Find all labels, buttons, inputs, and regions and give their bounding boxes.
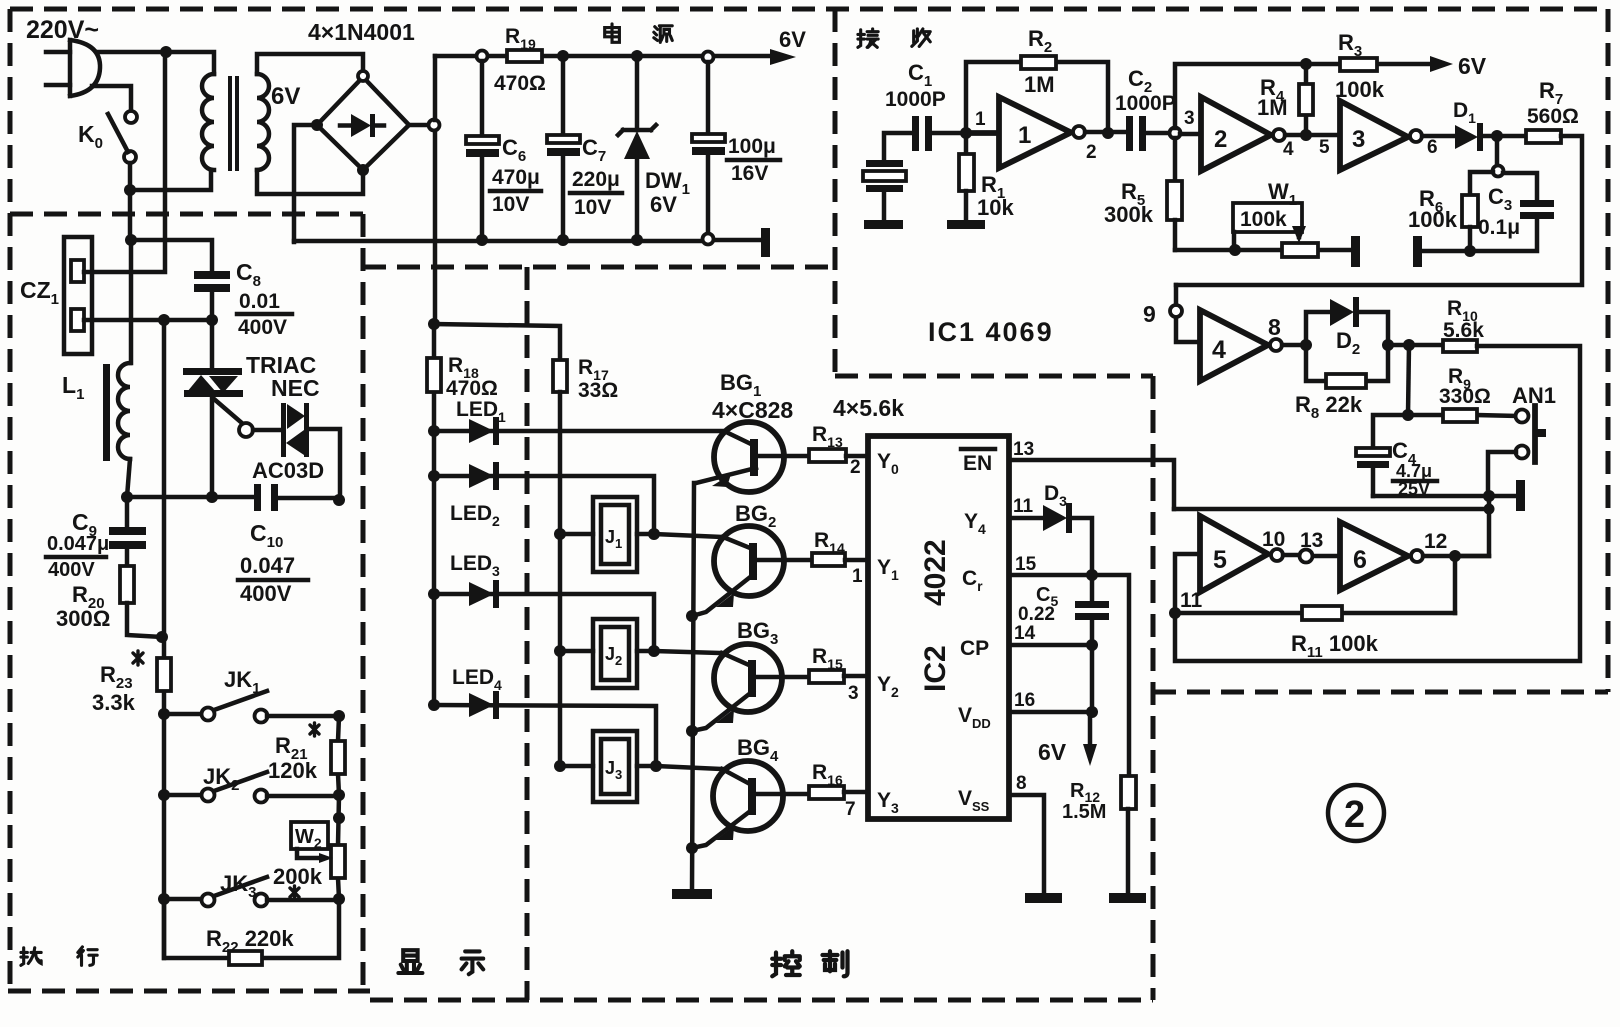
node W1 left xyxy=(1229,244,1241,256)
node circle on DC rail xyxy=(429,120,440,131)
svg-text:4: 4 xyxy=(1283,139,1294,160)
LED4 xyxy=(469,691,499,719)
left rail vertical xyxy=(162,320,167,958)
resistor R5 xyxy=(1167,138,1182,250)
inverter U1-2 xyxy=(1201,97,1285,171)
zhixing box top dashed xyxy=(10,212,363,217)
ground emitter rail xyxy=(672,889,712,899)
svg-text:16: 16 xyxy=(1014,690,1035,711)
svg-text:9: 9 xyxy=(1143,301,1156,327)
switch JK2 xyxy=(164,772,339,803)
node J1 left xyxy=(554,528,566,540)
svg-text:4: 4 xyxy=(1212,336,1226,364)
junction circle R6C3 xyxy=(1493,166,1504,177)
node K0 rail / L1 top xyxy=(125,234,137,246)
svg-text:2: 2 xyxy=(1344,794,1365,836)
svg-text:200k: 200k xyxy=(273,864,323,889)
label jie (receive) char1 xyxy=(858,29,878,47)
wire R7 to IC1b rail xyxy=(1176,136,1582,285)
resistor R16 xyxy=(809,786,844,799)
wire AN1 bottom to node xyxy=(1488,452,1516,496)
svg-text:11: 11 xyxy=(1180,589,1203,612)
svg-text:6: 6 xyxy=(1353,546,1367,574)
pin 11 wire Y4 xyxy=(1009,516,1043,521)
pushbutton AN1 xyxy=(1516,406,1547,462)
svg-text:2: 2 xyxy=(1214,126,1227,153)
node BG4 emitter xyxy=(686,842,698,854)
wire to R10 xyxy=(1388,343,1443,348)
svg-text:0.01: 0.01 xyxy=(239,290,280,313)
label zhi (control) char2 xyxy=(823,951,848,976)
resistor R1 xyxy=(947,133,985,229)
diode D2 branch xyxy=(1306,297,1388,345)
svg-text:400V: 400V xyxy=(240,581,292,606)
node JK1 right xyxy=(333,710,345,722)
node W2 top xyxy=(333,812,345,824)
svg-text:15: 15 xyxy=(1015,554,1037,575)
svg-text:100μ: 100μ xyxy=(728,135,776,158)
AC plug 220V xyxy=(46,40,100,96)
svg-text:11: 11 xyxy=(1013,496,1034,517)
wire R15 to IC2 xyxy=(844,674,868,679)
ground bar R6C3 xyxy=(1413,236,1422,267)
relay supply rail R17 down xyxy=(558,392,563,766)
bottom dashed border left (zhixing box) xyxy=(8,989,370,994)
LED anode rail xyxy=(432,324,437,705)
svg-text:6V: 6V xyxy=(650,192,677,217)
capacitor C1 xyxy=(912,116,966,151)
resistor R8 branch xyxy=(1306,345,1388,388)
ground rail of power section xyxy=(294,240,760,241)
node DW1 top xyxy=(631,50,643,62)
base wire BG1 xyxy=(758,454,809,459)
svg-text:1000P: 1000P xyxy=(1115,92,1176,115)
svg-text:6V: 6V xyxy=(1038,739,1067,765)
ground bar C4 xyxy=(1516,480,1525,511)
wire rail down to inv4 input xyxy=(1176,285,1200,342)
wire R16 to IC2 xyxy=(844,790,868,795)
svg-text:2: 2 xyxy=(1086,142,1097,163)
inverter U1-6 xyxy=(1340,522,1423,590)
wire R11 row xyxy=(1175,611,1455,616)
resistor R23 xyxy=(157,658,171,691)
node J2 left xyxy=(554,645,566,657)
node JK1 left xyxy=(158,708,170,720)
resistor R22 xyxy=(229,951,262,965)
svg-text:CP: CP xyxy=(960,637,989,660)
label dian (power) char1 xyxy=(605,24,620,42)
wire J2 right to BG3 collector xyxy=(637,651,722,653)
node C10 right xyxy=(333,494,345,506)
triac MT wire from C8 node xyxy=(210,320,215,369)
node JK3 right xyxy=(333,893,345,905)
wire bridge right vertex to DC rail xyxy=(409,123,428,128)
label yuan (power) char2 xyxy=(654,26,672,43)
pin 14 wire CP xyxy=(1009,643,1092,648)
svg-text:120k: 120k xyxy=(268,758,318,783)
resistor R19 xyxy=(507,50,542,62)
wire plug top to transformer xyxy=(97,52,214,74)
node R4 bottom xyxy=(1300,129,1312,141)
node R9 branch top xyxy=(1403,339,1415,351)
svg-text:0.047μ: 0.047μ xyxy=(47,533,109,555)
svg-text:6V: 6V xyxy=(779,27,806,52)
node R6 bottom xyxy=(1464,245,1476,257)
bridge top vertex terminal xyxy=(358,71,368,81)
capacitor 100u/16V xyxy=(692,62,725,234)
svg-text:1: 1 xyxy=(975,109,986,130)
resistor R21 xyxy=(331,716,345,795)
node circle 100u top xyxy=(703,52,714,63)
svg-text:10k: 10k xyxy=(977,195,1014,220)
transformer secondary coil xyxy=(257,74,269,170)
svg-text:AN1: AN1 xyxy=(1512,383,1556,408)
svg-text:14: 14 xyxy=(1014,623,1036,644)
node J3 right xyxy=(650,760,662,772)
wire inv6 out xyxy=(1423,554,1489,559)
node BG2 emitter xyxy=(686,610,698,622)
IC2 4022 box xyxy=(868,436,1009,819)
wire J3 right to BG4 collector xyxy=(637,766,722,769)
node VDD xyxy=(1086,706,1098,718)
wire LED1 row (to BG1 collector) xyxy=(434,429,726,434)
outer right dashed border xyxy=(1606,9,1611,692)
outer top dashed border xyxy=(10,7,1608,12)
inverter U1-1 xyxy=(966,97,1085,168)
wire J1 right to BG2 collector xyxy=(637,534,723,537)
svg-text:4022: 4022 xyxy=(919,539,952,606)
svg-text:10: 10 xyxy=(1262,528,1285,551)
resistor R6 xyxy=(1462,172,1493,251)
svg-text:470Ω: 470Ω xyxy=(446,377,498,400)
wire CZ1 lower pin xyxy=(84,318,212,323)
resistor R2 xyxy=(1021,56,1056,69)
svg-text:4×C828: 4×C828 xyxy=(712,397,793,423)
resistor R13 xyxy=(809,449,846,462)
svg-text:300Ω: 300Ω xyxy=(56,606,110,631)
svg-text:0.047: 0.047 xyxy=(240,553,295,578)
LED1 xyxy=(469,417,499,445)
svg-text:5: 5 xyxy=(1319,137,1330,158)
6V arrow power rail xyxy=(770,49,796,65)
zener diode DW1 xyxy=(618,61,656,240)
wire LED2 row xyxy=(434,476,654,534)
wire LED3 row xyxy=(434,594,654,651)
ground bar W1 xyxy=(1351,236,1360,267)
node R20 bottom xyxy=(156,631,168,643)
wire inv5 out xyxy=(1283,553,1299,558)
node LED2 anode xyxy=(428,470,440,482)
node D1 cathode xyxy=(1491,130,1503,142)
node JK3 left xyxy=(158,893,170,905)
svg-text:12: 12 xyxy=(1424,530,1447,553)
resistor R20 xyxy=(120,566,134,603)
transformer core xyxy=(228,76,232,171)
capacitor C7 electrolytic xyxy=(547,61,580,240)
svg-text:8: 8 xyxy=(1268,314,1281,340)
node J3 left xyxy=(554,760,566,772)
node C6 bottom xyxy=(476,234,488,246)
svg-text:EN: EN xyxy=(963,452,992,475)
svg-text:10V: 10V xyxy=(492,193,529,216)
node R17 branch xyxy=(428,318,440,330)
wire inv4 out xyxy=(1282,343,1306,348)
label zhi (execute) char1 xyxy=(21,948,41,965)
wire K0 to node xyxy=(128,163,133,190)
resistor R11 xyxy=(1302,606,1342,620)
display/control divider dashed xyxy=(525,267,530,1000)
node EN tee xyxy=(1484,504,1495,515)
node R9 row xyxy=(1402,409,1414,421)
capacitor C10 xyxy=(254,484,278,511)
svg-text:4×1N4001: 4×1N4001 xyxy=(308,19,415,45)
wire bridge left vertex to ground rail xyxy=(294,125,317,242)
capacitor C2 xyxy=(1126,116,1169,151)
diode D1 xyxy=(1455,123,1526,151)
svg-text:4×5.6k: 4×5.6k xyxy=(833,395,904,421)
node R19 right xyxy=(557,50,569,62)
svg-text:3: 3 xyxy=(1184,108,1195,129)
wire R3 row xyxy=(1306,62,1438,67)
resistor R3 xyxy=(1340,58,1377,71)
socket CZ1 xyxy=(64,237,92,354)
relay coil J3 xyxy=(593,731,637,802)
svg-text:1M: 1M xyxy=(1257,95,1288,120)
triac TRIAC NEC xyxy=(183,368,243,497)
svg-text:100k: 100k xyxy=(1335,77,1385,102)
label shi (display) char2 xyxy=(462,951,484,974)
node A (220V line junction) xyxy=(160,46,172,58)
switch JK3 xyxy=(164,877,339,907)
diode D3 xyxy=(1043,503,1092,575)
svg-text:0.1μ: 0.1μ xyxy=(1478,216,1520,239)
node LED4 anode xyxy=(428,699,440,711)
wire node to L1 xyxy=(129,240,134,363)
resistor R14 xyxy=(812,553,845,566)
wire LED4 row xyxy=(434,705,656,766)
wire y497 with C10 xyxy=(127,497,339,498)
node J1 right xyxy=(648,528,660,540)
6V arrow R3 xyxy=(1430,56,1453,72)
emitter rail xyxy=(692,483,694,891)
wire secondary top to bridge xyxy=(257,54,363,74)
asterisk W2 xyxy=(290,886,299,899)
right box bottom dashed xyxy=(1153,690,1608,695)
svg-text:330Ω: 330Ω xyxy=(1439,385,1491,408)
node circle 100u bottom xyxy=(703,234,714,245)
capacitor C9 xyxy=(109,497,146,566)
svg-text:8: 8 xyxy=(1016,773,1027,794)
wire node down to R9 row xyxy=(1408,345,1409,415)
svg-text:4.7μ: 4.7μ xyxy=(1396,461,1432,481)
wire pin3 up to R3 rail xyxy=(1175,64,1306,128)
svg-text:AC03D: AC03D xyxy=(252,458,324,483)
node C9 top xyxy=(121,491,133,503)
feedback wire R2 xyxy=(966,62,1108,133)
figure number circled 2 xyxy=(1328,785,1384,841)
node inv1 output xyxy=(1102,127,1114,139)
svg-text:1.5M: 1.5M xyxy=(1062,801,1106,823)
svg-text:470μ: 470μ xyxy=(492,166,540,189)
zhixing box right dashed xyxy=(361,214,366,991)
svg-text:7: 7 xyxy=(845,799,856,820)
wire R14 to IC2 xyxy=(845,558,868,563)
resistor R10 xyxy=(1443,340,1477,352)
node BG3 emitter xyxy=(686,725,698,737)
node C4 bottom right xyxy=(1483,490,1495,502)
inverter U1-5 xyxy=(1175,516,1283,613)
svg-text:13: 13 xyxy=(1013,439,1034,460)
svg-text:3: 3 xyxy=(1352,126,1365,153)
svg-text:100k: 100k xyxy=(1408,207,1458,232)
svg-text:300k: 300k xyxy=(1104,202,1154,227)
base wire BG2 xyxy=(757,558,812,563)
svg-text:560Ω: 560Ω xyxy=(1527,105,1579,128)
wire R13 to IC2 xyxy=(846,454,868,459)
bridge bottom vertex node xyxy=(357,164,369,176)
svg-text:100k: 100k xyxy=(1240,208,1287,231)
pin 15 wire Cr xyxy=(1009,575,1129,776)
svg-text:1: 1 xyxy=(1018,122,1031,149)
diac AC03D xyxy=(281,403,309,457)
wire R9 xyxy=(1408,415,1516,416)
capacitor C3 xyxy=(1420,173,1554,251)
node J2 right xyxy=(648,645,660,657)
pin 13 wire EN xyxy=(1009,460,1174,509)
svg-text:1: 1 xyxy=(852,566,863,587)
node left rail top xyxy=(158,314,170,326)
ground stub C4 xyxy=(1489,494,1514,499)
wire node down to inv6 loop xyxy=(1462,496,1489,556)
inverter U1-3 xyxy=(1340,101,1422,170)
resistor R9 xyxy=(1443,409,1477,422)
transistor BG4 xyxy=(692,761,783,848)
asterisk R21 xyxy=(310,723,319,736)
svg-text:0.22: 0.22 xyxy=(1018,604,1055,625)
svg-text:13: 13 xyxy=(1300,529,1323,552)
svg-text:16V: 16V xyxy=(731,162,768,185)
left rail to R22 xyxy=(164,899,229,958)
top supply rail with R19 xyxy=(435,54,770,59)
resistor R18 xyxy=(427,358,441,392)
wire pin3 to inv2 xyxy=(1180,132,1201,137)
pin 9 terminal circle xyxy=(1170,305,1182,317)
wire CP node to VDD node xyxy=(1090,645,1095,712)
potentiometer W2 xyxy=(291,795,345,899)
label xian (display) char1 xyxy=(398,950,422,973)
bridge rectifier diamond xyxy=(317,77,409,170)
bridge left vertex node xyxy=(311,119,323,131)
svg-text:3: 3 xyxy=(848,683,859,704)
node circle C6 top xyxy=(477,51,488,62)
L1 core bar xyxy=(103,364,110,461)
LED2 xyxy=(469,462,499,490)
EN wire into loop xyxy=(1174,507,1489,512)
node inverter1 input xyxy=(960,127,972,139)
pin 16 wire VDD xyxy=(1009,710,1092,715)
resistor R17 xyxy=(553,360,567,392)
node D2 right xyxy=(1382,339,1394,351)
wire diac right to rail xyxy=(309,429,340,500)
node C8 bottom junction xyxy=(206,314,218,326)
node inv6 out xyxy=(1449,550,1461,562)
outer left dashed border xyxy=(8,9,13,991)
gate terminal circle xyxy=(239,423,253,437)
svg-text:NEC: NEC xyxy=(271,375,320,401)
capacitor C8 xyxy=(194,271,230,320)
wire gate circle to diac xyxy=(253,428,282,433)
wire R10 right to timing loop xyxy=(1175,346,1580,661)
resistor R7 xyxy=(1526,130,1561,143)
relay coil J2 xyxy=(593,619,637,688)
ground VSS xyxy=(1025,893,1062,903)
svg-text:IC2: IC2 xyxy=(919,645,952,692)
wire CZ1 upper pin to 220V line xyxy=(84,52,165,272)
svg-text:220μ: 220μ xyxy=(572,168,620,191)
resistor R12 xyxy=(1121,776,1136,891)
ground bar power section xyxy=(761,228,770,257)
wire node to C8 xyxy=(131,240,212,271)
pin 8 wire VSS xyxy=(1009,795,1044,891)
wire inv1 out to C2 xyxy=(1085,130,1127,135)
node LED3 anode xyxy=(428,588,440,600)
svg-text:6V: 6V xyxy=(1458,53,1487,79)
svg-text:470Ω: 470Ω xyxy=(494,72,546,95)
node C7 bottom xyxy=(557,234,569,246)
transistor BG1 xyxy=(696,422,784,492)
svg-text:3.3k: 3.3k xyxy=(92,690,136,715)
node inv4 out xyxy=(1300,339,1312,351)
node triac bottom junction xyxy=(206,491,218,503)
capacitor C6 electrolytic xyxy=(466,61,499,240)
node C5 bottom CP xyxy=(1086,639,1098,651)
wire inv3 out to D1 xyxy=(1422,134,1455,139)
control box right dashed xyxy=(1151,376,1156,1000)
svg-text:33Ω: 33Ω xyxy=(578,379,618,402)
wire R17 branch xyxy=(434,324,560,360)
switch K0 xyxy=(108,111,137,163)
DC+ rail vertical xyxy=(433,56,438,324)
triac gate wire xyxy=(214,399,243,424)
svg-text:2: 2 xyxy=(850,457,861,478)
switch JK1 xyxy=(164,691,339,723)
pin 13 terminal circle xyxy=(1300,550,1313,563)
bridge internal diode xyxy=(351,114,371,137)
node D3 to Cr xyxy=(1086,569,1098,581)
svg-text:6: 6 xyxy=(1427,137,1438,158)
svg-text:6V: 6V xyxy=(271,83,300,110)
resistor R15 xyxy=(809,670,844,683)
label kong (control) char1 xyxy=(772,951,800,976)
capacitor C5 xyxy=(1075,575,1109,645)
node DW1 bottom xyxy=(631,234,643,246)
receiver box left dashed xyxy=(833,9,838,376)
label shou (receive) char2 xyxy=(912,29,930,46)
wire L1 to node xyxy=(127,459,130,497)
transistor BG2 xyxy=(692,526,784,616)
wire plug bottom to switch K0 xyxy=(92,86,131,110)
capacitor C4 electrolytic xyxy=(1356,448,1390,496)
node LED1 anode xyxy=(428,425,440,437)
wire node to primary bottom xyxy=(130,170,211,190)
wire secondary bottom to bridge xyxy=(257,170,363,194)
svg-text:IC1 4069: IC1 4069 xyxy=(928,317,1054,347)
node JK2 left xyxy=(158,789,170,801)
node R4 top xyxy=(1300,58,1312,70)
node JK2 right xyxy=(333,789,345,801)
svg-text:5: 5 xyxy=(1213,546,1227,574)
relay coil J1 xyxy=(593,497,637,572)
